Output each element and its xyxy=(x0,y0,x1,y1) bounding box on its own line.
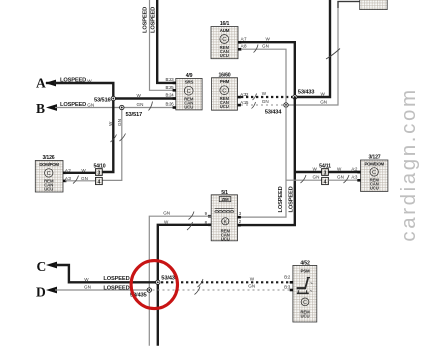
wire GN branch to 54/11 pin 4 xyxy=(286,179,322,181)
svg-text:W: W xyxy=(164,219,169,224)
svg-text:UCU: UCU xyxy=(220,104,229,109)
svg-text:A:3: A:3 xyxy=(65,176,72,181)
svg-text:W: W xyxy=(262,91,267,96)
svg-text:W: W xyxy=(81,168,86,173)
svg-text:C: C xyxy=(222,37,226,43)
pin A:7 xyxy=(238,41,241,44)
svg-text:ZIM: ZIM xyxy=(222,197,230,202)
seat icon xyxy=(297,287,306,289)
ECU box 16/1 AUM xyxy=(211,21,247,59)
pin B:2 xyxy=(290,281,293,284)
svg-text:D: D xyxy=(36,285,46,300)
svg-text:B:23: B:23 xyxy=(166,77,175,82)
svg-text:53/516: 53/516 xyxy=(94,97,112,103)
svg-text:LOSPEED: LOSPEED xyxy=(142,7,148,33)
svg-text:POM/DOM: POM/DOM xyxy=(365,161,385,166)
node 53/433 xyxy=(293,95,297,99)
svg-text:UCU: UCU xyxy=(221,236,230,241)
svg-text:C: C xyxy=(222,88,226,94)
svg-text:cardiagn.com: cardiagn.com xyxy=(397,87,420,241)
svg-text:C: C xyxy=(37,259,47,274)
pin B:3 xyxy=(290,289,293,292)
ECU box 3/126 DOM/POM xyxy=(35,155,66,192)
svg-text:GN: GN xyxy=(313,175,320,180)
node 53/436 xyxy=(156,280,160,284)
connector 54/11 xyxy=(319,163,331,185)
wire W from 16/1 A:7 down to node 53/433 xyxy=(241,42,295,97)
node 53/517 xyxy=(120,105,124,109)
svg-text:LOSPEED: LOSPEED xyxy=(278,186,284,212)
svg-text:UCU: UCU xyxy=(300,313,309,318)
svg-text:GN: GN xyxy=(87,103,94,108)
svg-text:W: W xyxy=(321,92,326,97)
svg-text:UCU: UCU xyxy=(44,186,53,191)
hatched box top right xyxy=(360,0,388,10)
wire GN 3/126 A:3 to 54/10 pin 4 xyxy=(65,180,96,182)
svg-text:DOM/POM: DOM/POM xyxy=(39,162,59,167)
splice slashes on ZIM left pair xyxy=(187,222,193,230)
splice slash xyxy=(301,175,307,183)
svg-text:4: 4 xyxy=(98,179,101,185)
svg-text:GN: GN xyxy=(248,284,255,289)
wire W lospeed top-left vertical xyxy=(157,0,176,83)
wire W branch to 54/11 pin 3 xyxy=(295,171,322,173)
svg-text:4: 4 xyxy=(324,179,327,185)
splice slash on W/GN vertical pair xyxy=(111,135,117,143)
wire dashed GN node 53/435 to 4/52 B:3 xyxy=(153,289,293,291)
svg-text:GN: GN xyxy=(320,100,327,105)
svg-text:LOSPEED: LOSPEED xyxy=(151,7,157,33)
wire GN from top-right box down to node 53/434 xyxy=(286,2,360,106)
pin 9 xyxy=(208,215,211,218)
svg-text:LOSPEED: LOSPEED xyxy=(103,285,129,291)
svg-text:C: C xyxy=(372,170,376,176)
svg-text:GN: GN xyxy=(84,285,91,290)
svg-text:C: C xyxy=(303,300,307,306)
svg-text:W: W xyxy=(266,36,271,41)
splice slash on dashed pair xyxy=(253,94,257,101)
svg-text:GN: GN xyxy=(262,44,269,49)
wire GN 54/11 to 3/127 A:3 xyxy=(328,179,360,181)
wire B (GN) through node 53/517 to 4/9 B:26 xyxy=(55,107,176,109)
svg-text:53/433: 53/433 xyxy=(298,90,316,96)
annotation red circle xyxy=(131,261,177,309)
svg-text:SRS: SRS xyxy=(185,80,194,85)
svg-text:W: W xyxy=(108,121,113,126)
pin B:23 xyxy=(173,82,176,85)
svg-text:W: W xyxy=(337,167,342,172)
svg-text:PHM: PHM xyxy=(220,79,230,84)
wire dashed GN from 16/60 A:15 to node 53/434 xyxy=(241,104,283,106)
svg-text:B:25: B:25 xyxy=(166,85,175,90)
svg-text:W: W xyxy=(313,167,318,172)
ECU box 16/60 PHM xyxy=(212,72,249,110)
wire GN from 16/1 A:8 down to node 53/434 xyxy=(241,49,286,105)
svg-text:LOSPEED: LOSPEED xyxy=(288,186,294,212)
wire W from top edge right down to node 53/433 xyxy=(295,0,330,97)
wire dashed W from 16/60 A:32 to node 53/433 xyxy=(241,96,292,98)
wire W ZIM pin 8 left and down to node 53/436 xyxy=(158,225,211,346)
svg-text:LOSPEED: LOSPEED xyxy=(60,102,86,108)
svg-text:AUM: AUM xyxy=(220,28,230,33)
svg-text:PSM: PSM xyxy=(301,268,310,273)
pin A:8 xyxy=(238,48,241,51)
splice slash on right pair xyxy=(326,49,340,60)
svg-text:A:7: A:7 xyxy=(241,36,248,41)
ECU box 4/9 SRS xyxy=(166,73,203,110)
pin 3 xyxy=(238,216,241,219)
svg-text:53/434: 53/434 xyxy=(265,109,283,115)
ECU box 4/52 PSM xyxy=(284,260,317,322)
ECU box 3/127 POM/DOM xyxy=(357,155,388,192)
pin 8 xyxy=(208,224,211,227)
wire W vertical 53/433 down to ZIM pin 2 xyxy=(238,97,295,225)
svg-text:LOSPEED: LOSPEED xyxy=(60,78,86,84)
svg-text:A: A xyxy=(36,76,46,91)
svg-text:A:8: A:8 xyxy=(241,43,248,48)
splice slash xyxy=(344,175,350,183)
svg-text:GN: GN xyxy=(137,102,144,107)
splice slash xyxy=(73,176,79,184)
pin B:24 xyxy=(173,97,176,100)
pin 2 xyxy=(238,224,241,227)
wire dashed W node 53/436 to 4/52 B:2 xyxy=(161,281,293,283)
wire W 54/11 to 3/127 A:2 xyxy=(328,171,360,173)
node 53/516 xyxy=(111,96,115,100)
svg-text:B:26: B:26 xyxy=(166,102,175,107)
svg-text:UCU: UCU xyxy=(184,104,193,109)
svg-text:LOSPEED: LOSPEED xyxy=(103,276,129,282)
svg-text:B:2: B:2 xyxy=(284,274,291,279)
wire C (W) to node 53/436 xyxy=(55,265,158,282)
svg-text:A:2: A:2 xyxy=(351,167,358,172)
svg-text:B:3: B:3 xyxy=(284,285,291,290)
pin B:26 xyxy=(173,106,176,109)
wire D (GN) to node 53/435 xyxy=(55,289,149,291)
splice slashes on bottom dashed pair xyxy=(198,279,204,287)
connector bumps row xyxy=(215,210,234,212)
connector 54/10 xyxy=(94,164,106,186)
splice slash on 16/1 pair xyxy=(254,45,259,53)
wire W 3/126 A:2 to 54/10 pin 3 xyxy=(65,172,96,174)
wire A (W) to node 53/516 xyxy=(54,83,113,99)
ZIM box 5/1 xyxy=(205,190,242,241)
svg-text:C: C xyxy=(47,171,51,177)
svg-text:3: 3 xyxy=(98,170,101,176)
svg-text:C: C xyxy=(187,89,191,95)
svg-text:W: W xyxy=(137,93,142,98)
wire GN ZIM pin 9 left and down to node 53/435 xyxy=(149,216,211,346)
pin B:25 xyxy=(173,89,176,92)
svg-text:GN: GN xyxy=(81,176,88,181)
svg-text:W: W xyxy=(84,277,89,282)
svg-text:3: 3 xyxy=(324,170,327,176)
svg-text:W: W xyxy=(87,78,92,83)
svg-text:UCU: UCU xyxy=(220,53,229,58)
wire W vertical from 53/516 down to 54/10 pin 3 xyxy=(102,99,113,173)
node 53/434 xyxy=(284,103,288,107)
wire GN vertical from 53/517 down to 54/10 pin 4 xyxy=(102,108,122,181)
pin A:15 xyxy=(238,104,241,107)
node 53/435 xyxy=(147,288,151,292)
svg-text:3/126: 3/126 xyxy=(43,155,55,161)
svg-text:53/517: 53/517 xyxy=(126,112,143,118)
svg-text:UCU: UCU xyxy=(370,186,379,191)
svg-text:GN: GN xyxy=(262,99,269,104)
svg-text:W: W xyxy=(250,276,255,281)
svg-text:B: B xyxy=(36,101,45,116)
splice slash on A/B pair xyxy=(149,102,153,111)
wire GN lospeed top-left vertical xyxy=(150,0,177,90)
wire W from node 53/516 to 4/9 pin B:24 xyxy=(113,97,176,99)
wire GN vertical 53/434 down to ZIM pin 3 xyxy=(238,105,287,217)
svg-text:B:24: B:24 xyxy=(166,93,175,98)
svg-text:A:3: A:3 xyxy=(351,175,358,180)
svg-text:GN: GN xyxy=(117,119,122,126)
svg-text:A:2: A:2 xyxy=(65,168,72,173)
svg-text:GN: GN xyxy=(337,175,344,180)
svg-text:GN: GN xyxy=(163,211,170,216)
pin A:32 xyxy=(238,96,241,99)
